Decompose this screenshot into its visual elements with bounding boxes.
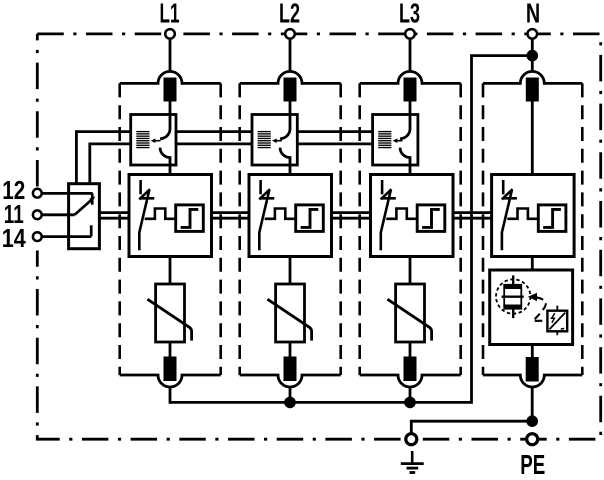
- terminal 12: [33, 189, 42, 198]
- wire riser to remote contact (left): [75, 130, 78, 184]
- terminal L3: [405, 29, 415, 39]
- thermal disconnect element bottom branch L2: [284, 357, 297, 382]
- varistor common bus to N (bottom bus and riser): [170, 56, 532, 403]
- enclosure border (dash-dot device outline): [37, 34, 600, 439]
- junction varistor bus / branch L3: [404, 397, 416, 409]
- wire fuse to disconnector box branch L2: [289, 102, 292, 116]
- thermal disconnector with status indication branch L3: [373, 115, 418, 175]
- changeover contact: fixed contact 12 stub: [91, 193, 94, 204]
- disconnector bus upper wire: [76, 130, 372, 133]
- wire switching element to varistor branch L2: [289, 257, 292, 285]
- wire varistor to bottom fuse branch L1: [169, 342, 172, 357]
- svg-text:L3: L3: [399, 0, 420, 29]
- wire N terminal down to fuse: [531, 39, 534, 73]
- wire terminal 12 into contact box: [42, 192, 93, 195]
- spark gap / gas discharge tube module N-PE: [490, 270, 573, 345]
- varistor branch L2: [267, 284, 311, 342]
- wire branch L3 to varistor bus: [409, 386, 412, 402]
- terminal L1: [165, 29, 175, 39]
- varistor branch L1: [147, 284, 191, 342]
- trigger electronics box: [547, 306, 567, 336]
- thermal disconnect element top branch N: [526, 78, 539, 102]
- terminal PE: [527, 434, 538, 445]
- PE equipotential line to earth terminal: [411, 421, 532, 434]
- wire fuse to disconnector box branch L3: [409, 102, 412, 116]
- changeover contact: moving blade from 11 with arrow: [75, 196, 96, 215]
- triggered spark-gap switching element branch L3: [371, 175, 454, 257]
- terminal earth (direct grounding): [406, 434, 417, 445]
- wire varistor to bottom fuse branch L3: [409, 342, 412, 357]
- wire fuse to switching element branch N: [531, 102, 534, 176]
- triggered spark-gap switching element branch L1: [129, 175, 212, 257]
- disconnector bus lower wire: [90, 142, 373, 145]
- wire riser to remote contact (right): [88, 143, 91, 184]
- junction N terminal / varistor bus: [527, 50, 539, 62]
- wire terminal 14 into contact box: [42, 235, 91, 238]
- main bus lower conductor: [100, 217, 492, 220]
- protection-module enclosure branch L3 (dashed box with terminal bushings): [360, 71, 461, 387]
- thermal disconnector with status indication branch L2: [252, 115, 297, 175]
- wire branch L2 to varistor bus: [289, 386, 292, 402]
- triggered spark-gap switching element branch N: [492, 175, 574, 257]
- triggered spark-gap switching element branch L2: [249, 175, 332, 257]
- junction varistor bus / branch L2: [284, 397, 296, 409]
- svg-text:PE: PE: [520, 449, 545, 480]
- svg-text:14: 14: [2, 225, 27, 253]
- protection-module enclosure branch L2 (dashed box with terminal bushings): [240, 71, 341, 387]
- varistor branch L3: [387, 284, 431, 342]
- remote signalling changeover contact box: [69, 184, 100, 249]
- junction branch N / PE line: [526, 415, 538, 427]
- protection-module enclosure branch L1 (dashed box with terminal bushings): [120, 71, 221, 387]
- wire branch L1 to varistor bus: [169, 386, 172, 404]
- wire L3 terminal to thermal fuse: [409, 39, 412, 73]
- gas discharge tube symbol (dashed circle): [496, 275, 530, 318]
- wire switching element to varistor branch L1: [169, 257, 172, 285]
- trigger coupling dashed arrow: [528, 293, 548, 321]
- terminal L2: [285, 29, 295, 39]
- wire gas discharge tube box to bottom fuse branch N: [531, 345, 534, 358]
- wire fuse to disconnector box branch L1: [169, 102, 172, 116]
- svg-text:N: N: [526, 0, 540, 29]
- wire L1 terminal to thermal fuse: [169, 39, 172, 73]
- svg-text:L2: L2: [279, 0, 300, 29]
- terminal 11: [33, 210, 42, 219]
- terminal 14: [33, 232, 42, 241]
- thermal disconnector with status indication branch L1: [131, 115, 176, 175]
- wire switching element to varistor branch L3: [409, 257, 412, 285]
- thermal disconnect element top branch L2: [284, 78, 297, 102]
- protection-module enclosure branch N (dashed box with terminal bushings): [483, 71, 582, 387]
- wire branch N to PE junction: [531, 386, 534, 421]
- thermal disconnect element top branch L1: [164, 78, 177, 102]
- thermal disconnect element top branch L3: [404, 78, 417, 102]
- main bus upper conductor: [100, 211, 492, 214]
- earth / ground symbol: [401, 451, 424, 473]
- terminal N: [528, 29, 538, 39]
- thermal disconnect element bottom branch N: [526, 357, 539, 382]
- changeover contact: contact 14 elbow: [90, 225, 93, 236]
- wire switching element to gas discharge tube box branch N: [531, 257, 534, 271]
- wire varistor to bottom fuse branch L2: [289, 342, 292, 357]
- thermal disconnect element bottom branch L1: [164, 357, 177, 382]
- thermal disconnect element bottom branch L3: [404, 357, 417, 382]
- wire terminal 11 into contact box: [42, 213, 75, 216]
- wire L2 terminal to thermal fuse: [289, 39, 292, 73]
- svg-text:L1: L1: [160, 0, 180, 29]
